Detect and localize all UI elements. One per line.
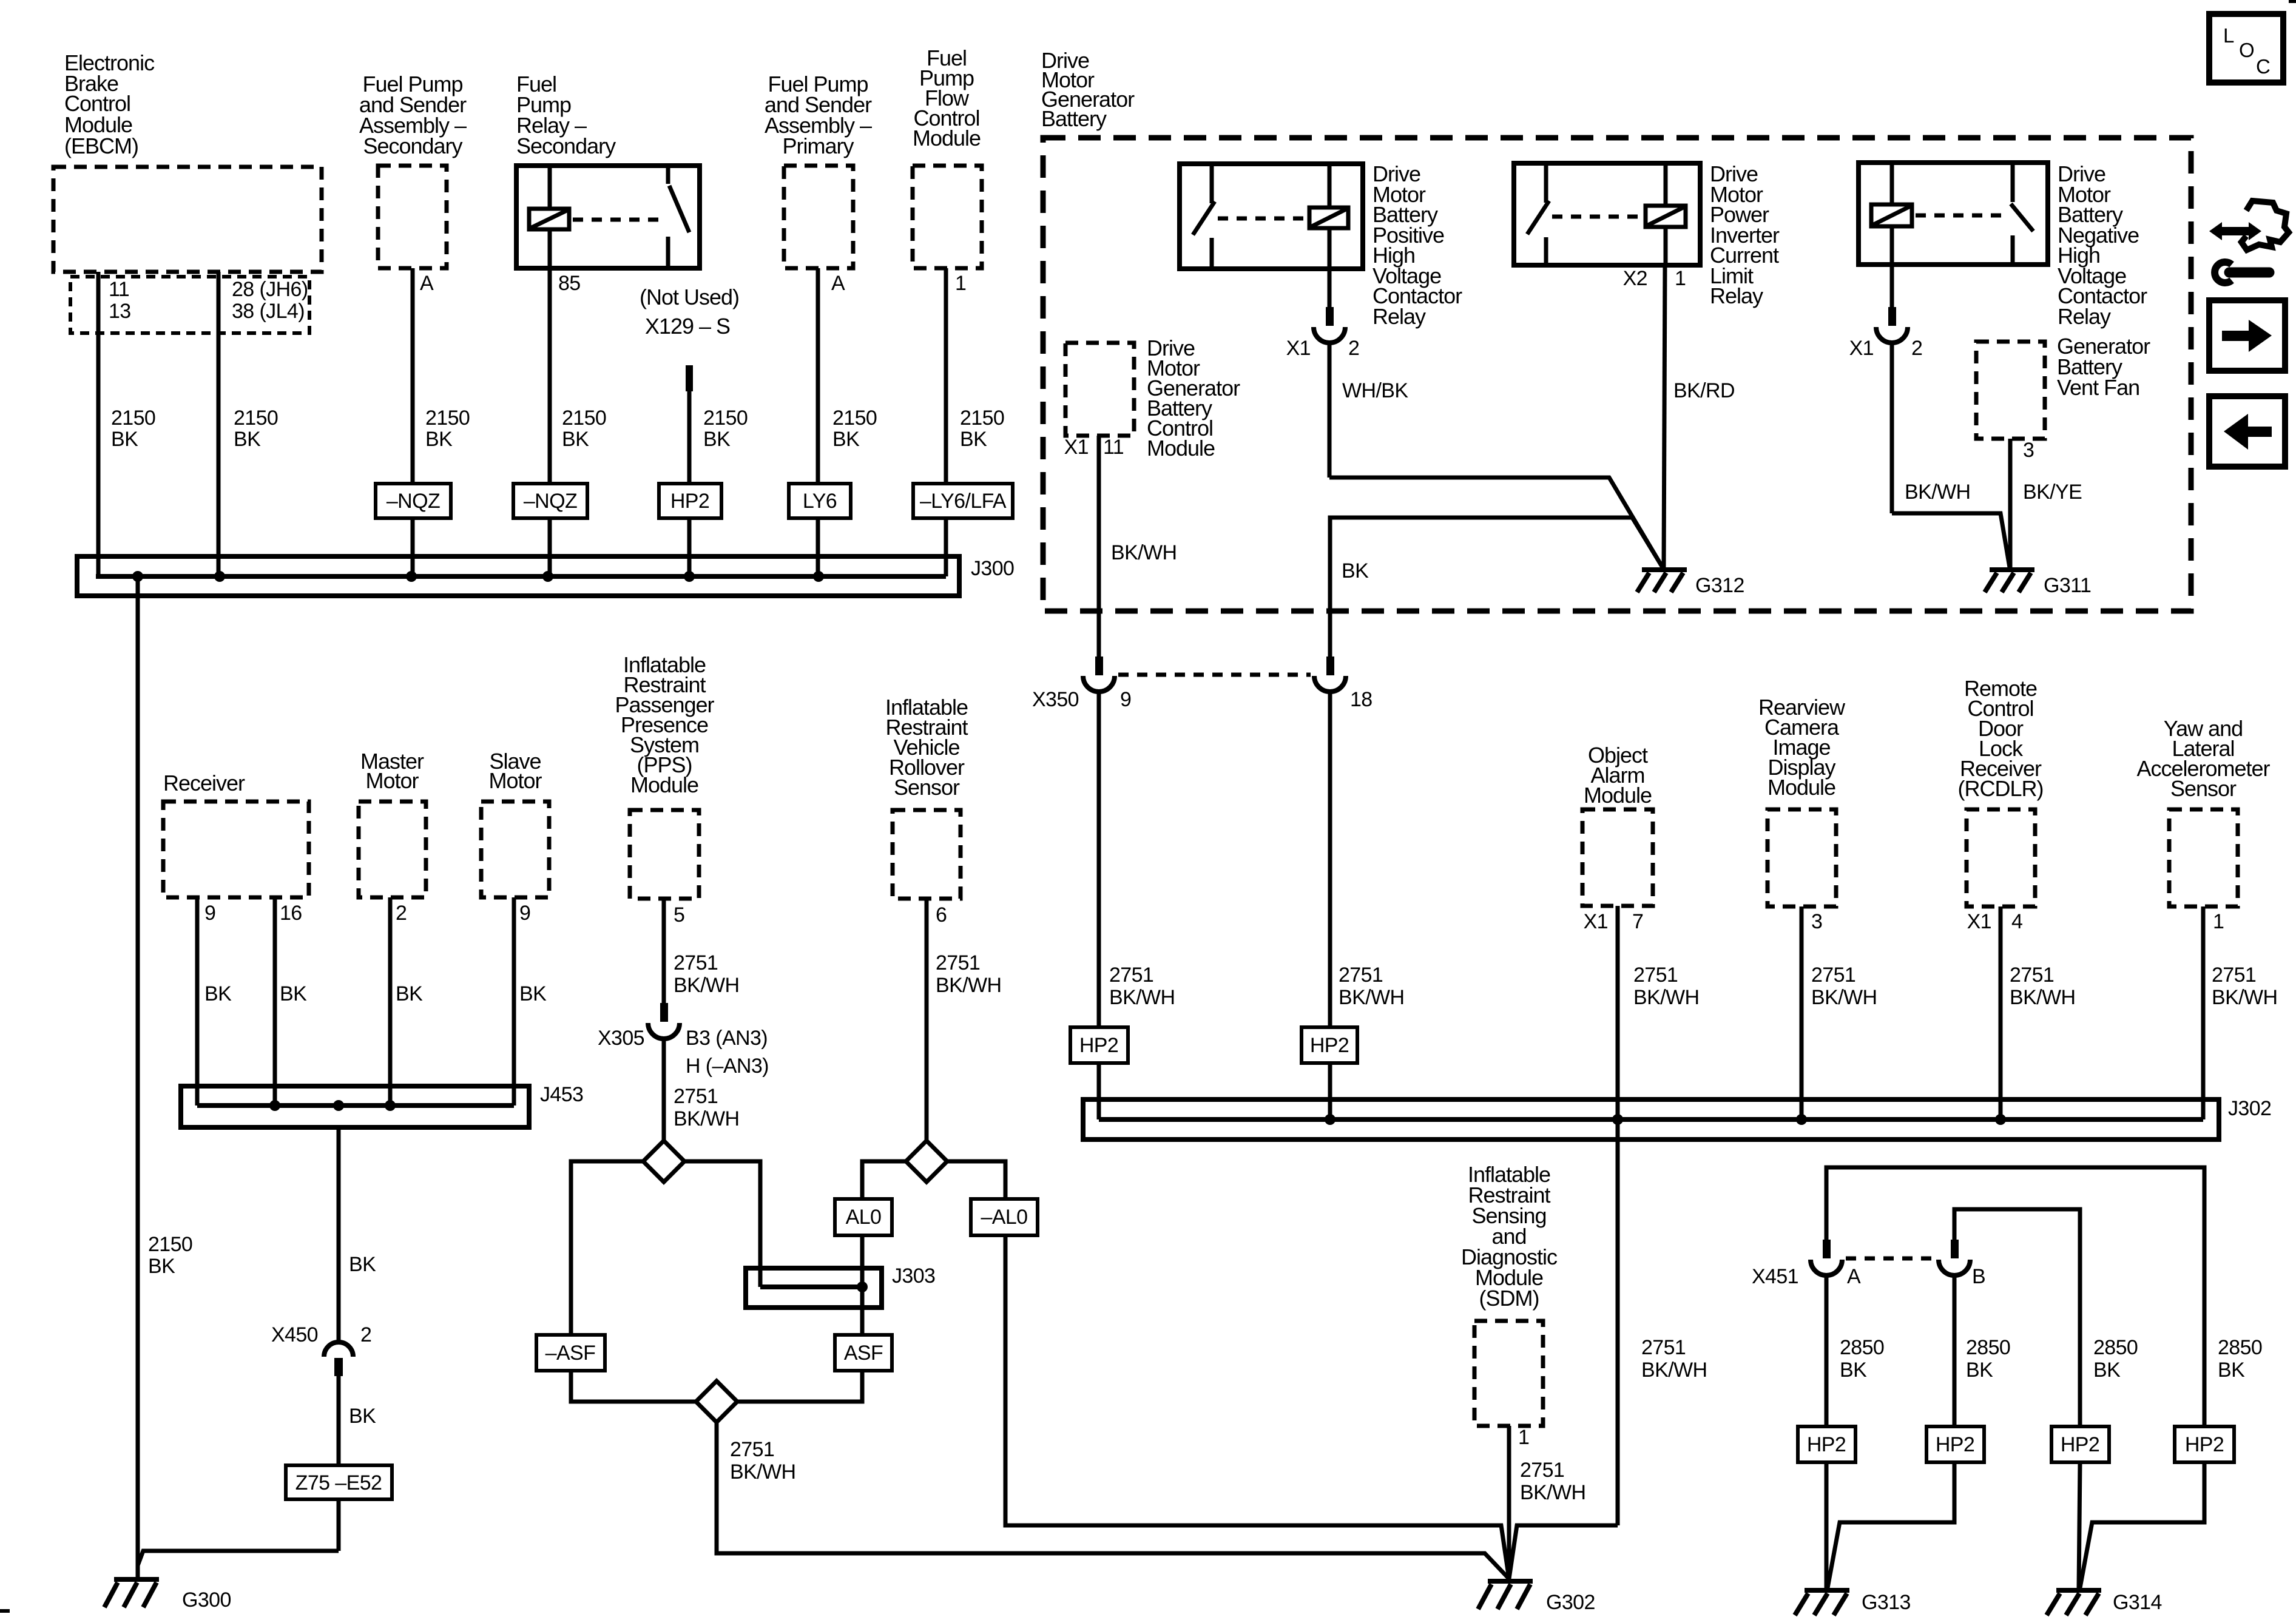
svg-text:2850: 2850: [1840, 1336, 1884, 1359]
svg-text:2751: 2751: [2010, 964, 2054, 987]
svg-text:BK: BK: [2218, 1359, 2245, 1382]
svg-text:(EBCM): (EBCM): [64, 133, 138, 158]
svg-text:X350: X350: [1032, 688, 1079, 711]
svg-text:Sensor: Sensor: [2170, 776, 2237, 801]
svg-text:BK/WH: BK/WH: [2212, 986, 2277, 1009]
svg-text:2751: 2751: [1633, 964, 1678, 987]
svg-text:2: 2: [396, 902, 407, 925]
svg-text:BK: BK: [1966, 1359, 1993, 1382]
svg-text:BK: BK: [148, 1255, 175, 1278]
svg-text:–LY6/LFA: –LY6/LFA: [920, 490, 1007, 513]
svg-text:X2: X2: [1623, 267, 1647, 290]
svg-text:BK/WH: BK/WH: [1633, 986, 1699, 1009]
svg-text:HP2: HP2: [670, 490, 709, 513]
svg-text:Sensor: Sensor: [894, 775, 960, 800]
svg-text:Receiver: Receiver: [163, 771, 245, 795]
svg-text:O: O: [2239, 39, 2255, 61]
svg-text:2850: 2850: [1966, 1336, 2010, 1359]
svg-text:Z75 –E52: Z75 –E52: [295, 1471, 382, 1494]
svg-text:X1: X1: [1967, 910, 1991, 933]
svg-text:BK/WH: BK/WH: [936, 974, 1001, 997]
svg-text:2751: 2751: [1109, 964, 1153, 987]
svg-text:2751: 2751: [674, 951, 718, 974]
svg-text:J300: J300: [971, 557, 1014, 580]
svg-text:X305: X305: [598, 1027, 644, 1050]
svg-text:2150: 2150: [148, 1233, 192, 1256]
svg-text:2150: 2150: [111, 407, 155, 430]
svg-text:BK/WH: BK/WH: [674, 974, 739, 997]
svg-text:BK: BK: [349, 1405, 376, 1428]
svg-text:Module: Module: [1768, 775, 1835, 800]
svg-text:28 (JH6): 28 (JH6): [232, 278, 308, 301]
svg-text:Relay: Relay: [1710, 283, 1763, 308]
svg-text:Secondary: Secondary: [516, 133, 616, 158]
svg-text:BK: BK: [703, 428, 731, 451]
svg-text:2150: 2150: [960, 407, 1004, 430]
svg-text:3: 3: [1811, 910, 1822, 933]
svg-text:2751: 2751: [1641, 1336, 1686, 1359]
svg-text:4: 4: [2011, 910, 2022, 933]
svg-text:Motor: Motor: [365, 768, 419, 793]
svg-text:HP2: HP2: [2185, 1433, 2224, 1456]
svg-text:G302: G302: [1546, 1591, 1595, 1614]
svg-text:–NQZ: –NQZ: [524, 490, 577, 513]
svg-text:AL0: AL0: [846, 1206, 882, 1229]
svg-text:Battery: Battery: [1041, 106, 1107, 131]
svg-text:G313: G313: [1862, 1591, 1911, 1614]
svg-text:X450: X450: [271, 1323, 318, 1346]
svg-text:2751: 2751: [730, 1438, 774, 1461]
svg-text:BK/YE: BK/YE: [2023, 481, 2082, 504]
svg-text:BK/WH: BK/WH: [1905, 481, 1970, 504]
svg-text:C: C: [2256, 55, 2271, 78]
svg-text:A: A: [420, 272, 434, 295]
svg-text:G300: G300: [182, 1588, 231, 1612]
svg-text:BK/WH: BK/WH: [1641, 1359, 1707, 1382]
svg-text:1: 1: [955, 272, 966, 295]
svg-text:BK: BK: [519, 982, 547, 1005]
svg-text:BK: BK: [832, 428, 860, 451]
svg-text:1: 1: [1675, 267, 1686, 290]
svg-text:L: L: [2223, 24, 2234, 47]
svg-text:Vent Fan: Vent Fan: [2057, 375, 2139, 400]
svg-text:ASF: ASF: [844, 1342, 883, 1365]
svg-text:1: 1: [1518, 1426, 1529, 1449]
svg-text:16: 16: [280, 902, 302, 925]
svg-text:18: 18: [1350, 688, 1373, 711]
svg-text:HP2: HP2: [1310, 1034, 1349, 1057]
svg-text:BK: BK: [280, 982, 307, 1005]
svg-text:B3 (AN3): B3 (AN3): [686, 1027, 768, 1050]
svg-text:HP2: HP2: [1079, 1034, 1118, 1057]
svg-text:X1: X1: [1286, 337, 1311, 360]
svg-text:3: 3: [2023, 439, 2034, 462]
svg-text:(RCDLR): (RCDLR): [1958, 776, 2044, 801]
svg-text:–AL0: –AL0: [981, 1206, 1027, 1229]
svg-text:2850: 2850: [2093, 1336, 2138, 1359]
svg-text:X1: X1: [1064, 436, 1089, 459]
svg-text:HP2: HP2: [1936, 1433, 1974, 1456]
svg-text:2751: 2751: [2212, 964, 2256, 987]
svg-text:BK/WH: BK/WH: [2010, 986, 2075, 1009]
svg-text:BK: BK: [1840, 1359, 1867, 1382]
svg-text:Secondary: Secondary: [363, 133, 462, 158]
svg-text:9: 9: [204, 902, 215, 925]
svg-text:Relay: Relay: [1373, 304, 1426, 329]
svg-text:Module: Module: [1584, 783, 1652, 808]
svg-text:6: 6: [936, 903, 947, 927]
svg-text:(SDM): (SDM): [1479, 1286, 1539, 1311]
svg-text:2751: 2751: [1811, 964, 1855, 987]
svg-text:2: 2: [1911, 337, 1922, 360]
svg-text:Module: Module: [1147, 436, 1215, 461]
svg-text:2150: 2150: [562, 407, 606, 430]
svg-text:J453: J453: [540, 1083, 583, 1106]
svg-text:HP2: HP2: [1807, 1433, 1846, 1456]
svg-text:Module: Module: [913, 126, 981, 150]
svg-text:2850: 2850: [2218, 1336, 2262, 1359]
svg-text:(Not Used): (Not Used): [640, 285, 739, 309]
svg-text:A: A: [831, 272, 845, 295]
svg-text:38 (JL4): 38 (JL4): [232, 300, 305, 323]
svg-text:2150: 2150: [234, 407, 278, 430]
svg-text:2150: 2150: [703, 407, 748, 430]
svg-text:G312: G312: [1695, 574, 1744, 597]
svg-text:X1: X1: [1584, 910, 1608, 933]
svg-text:BK/WH: BK/WH: [1339, 986, 1404, 1009]
svg-text:13: 13: [109, 300, 131, 323]
svg-text:BK: BK: [960, 428, 987, 451]
svg-text:A: A: [1847, 1265, 1861, 1288]
svg-text:G311: G311: [2044, 574, 2091, 597]
svg-text:2751: 2751: [674, 1085, 718, 1108]
svg-text:J302: J302: [2228, 1097, 2271, 1120]
svg-text:2150: 2150: [425, 407, 470, 430]
svg-text:Module: Module: [630, 772, 698, 797]
svg-text:BK: BK: [111, 428, 138, 451]
svg-text:Motor: Motor: [488, 768, 542, 793]
svg-text:X1: X1: [1849, 337, 1874, 360]
svg-text:2150: 2150: [832, 407, 877, 430]
svg-text:BK/WH: BK/WH: [674, 1107, 739, 1130]
svg-text:5: 5: [674, 903, 684, 927]
svg-text:2751: 2751: [1339, 964, 1383, 987]
svg-text:–NQZ: –NQZ: [387, 490, 440, 513]
svg-text:BK/WH: BK/WH: [1811, 986, 1877, 1009]
svg-text:–ASF: –ASF: [545, 1342, 596, 1365]
svg-text:H (–AN3): H (–AN3): [686, 1055, 769, 1078]
svg-text:LY6: LY6: [803, 490, 837, 513]
svg-text:J303: J303: [892, 1264, 935, 1288]
svg-text:HP2: HP2: [2061, 1433, 2099, 1456]
svg-text:9: 9: [1120, 688, 1131, 711]
svg-text:BK: BK: [1342, 559, 1369, 582]
svg-text:2751: 2751: [1520, 1459, 1564, 1482]
svg-text:BK/RD: BK/RD: [1673, 379, 1735, 402]
svg-text:2: 2: [1348, 337, 1359, 360]
svg-text:BK: BK: [234, 428, 261, 451]
svg-text:BK: BK: [562, 428, 589, 451]
svg-text:WH/BK: WH/BK: [1342, 379, 1408, 402]
svg-text:BK: BK: [2093, 1359, 2121, 1382]
svg-text:BK: BK: [349, 1253, 376, 1276]
svg-text:BK: BK: [396, 982, 423, 1005]
svg-text:X129 – S: X129 – S: [645, 314, 730, 339]
svg-text:BK/WH: BK/WH: [730, 1460, 795, 1484]
svg-text:2751: 2751: [936, 951, 980, 974]
svg-text:B: B: [1972, 1265, 1985, 1288]
svg-text:BK/WH: BK/WH: [1111, 541, 1177, 564]
svg-text:7: 7: [1632, 910, 1643, 933]
svg-text:BK: BK: [204, 982, 232, 1005]
svg-text:85: 85: [558, 272, 581, 295]
svg-text:9: 9: [519, 902, 530, 925]
svg-text:11: 11: [1103, 436, 1124, 459]
svg-text:X451: X451: [1752, 1265, 1798, 1288]
svg-text:Relay: Relay: [2058, 304, 2111, 329]
svg-text:BK/WH: BK/WH: [1520, 1481, 1585, 1504]
svg-text:Primary: Primary: [783, 133, 854, 158]
svg-text:BK/WH: BK/WH: [1109, 986, 1175, 1009]
svg-text:2: 2: [360, 1323, 371, 1346]
svg-text:BK: BK: [425, 428, 453, 451]
svg-text:11: 11: [109, 278, 129, 301]
svg-text:G314: G314: [2113, 1591, 2162, 1614]
svg-text:1: 1: [2213, 910, 2224, 933]
